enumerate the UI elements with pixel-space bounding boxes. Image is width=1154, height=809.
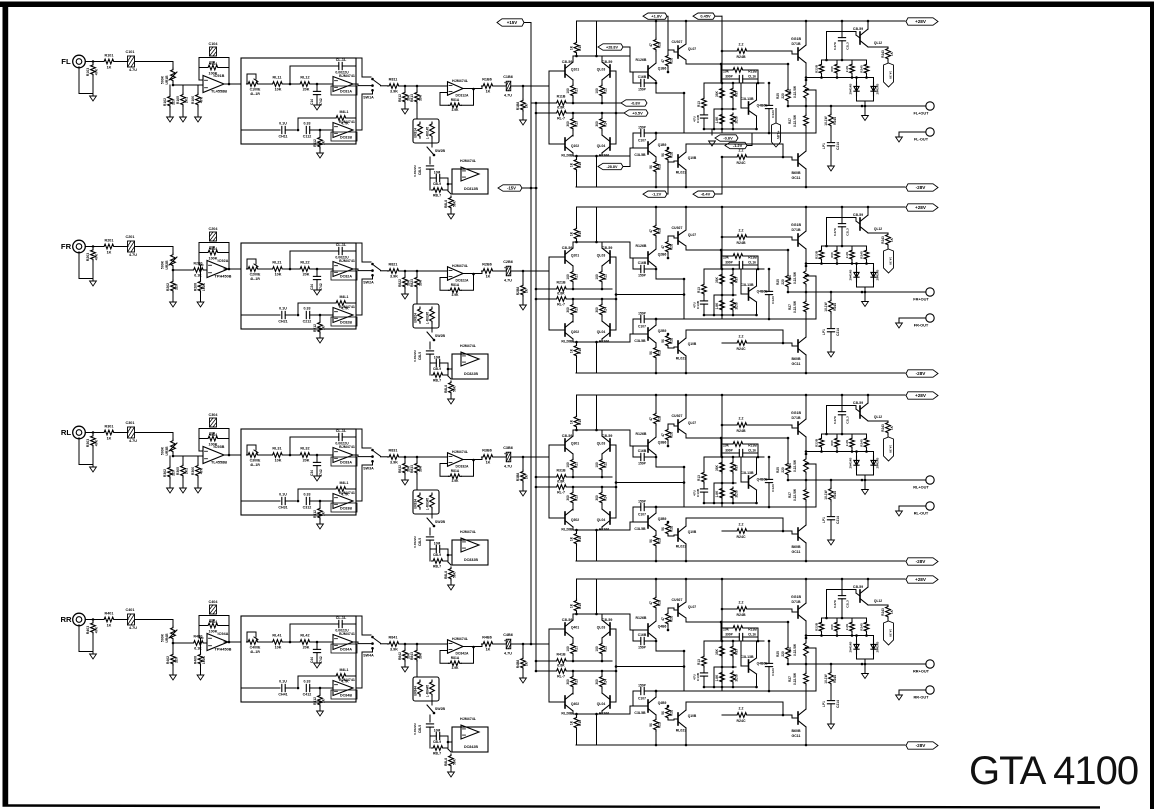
channel 1 voltage annotation flags: [598, 13, 781, 197]
svg-text:R243: R243: [881, 424, 885, 432]
svg-text:1K: 1K: [525, 103, 529, 108]
svg-text:L-R8245: L-R8245: [426, 312, 430, 325]
resistor R43C: [697, 641, 706, 673]
transistor Q212 C3L59: [853, 213, 882, 233]
svg-text:R23B: R23B: [815, 64, 819, 73]
svg-text:R24B: R24B: [737, 55, 746, 59]
svg-text:DC81B: DC81B: [340, 136, 352, 140]
svg-text:R2C: R2C: [670, 57, 674, 64]
resistor R445 2.2K: [845, 621, 854, 636]
trimmer UR4B 500K: [161, 626, 178, 643]
capacitor C8L1 0.0022U: [413, 164, 434, 178]
wire diff input channel 3: [549, 445, 565, 518]
svg-text:R8L8: R8L8: [444, 758, 448, 766]
capacitor C2B6 4.7U: [501, 260, 523, 283]
resistor R408 100K minus input: [194, 638, 207, 665]
resistor R245 2.2K: [845, 249, 854, 264]
resistor R212 1K to ground: [313, 314, 326, 338]
wire Q31B collector rail: [805, 394, 808, 419]
svg-text:IC94A: IC94A: [218, 632, 229, 636]
resistor R125 220/0.5W: [776, 63, 790, 108]
svg-text:150P: 150P: [638, 646, 647, 650]
switch SW3B: [427, 518, 446, 535]
svg-text:Q202: Q202: [571, 330, 579, 334]
svg-text:D71B: D71B: [792, 600, 801, 604]
resistor R343 1K: [868, 421, 894, 437]
capacitor C4B6 4.7U: [501, 633, 523, 656]
capacitor C223: [765, 268, 775, 321]
svg-text:DC812A: DC812A: [455, 94, 469, 98]
svg-text:C4B6: C4B6: [503, 633, 513, 637]
capacitor C36B 150P: [633, 446, 657, 466]
svg-text:R22: R22: [604, 88, 608, 94]
transistor Q312 C3L59: [853, 401, 882, 421]
transistor Q404 R1266: [597, 693, 610, 716]
svg-text:1K: 1K: [107, 624, 112, 628]
resistor R102 220: [163, 85, 176, 107]
capacitor C323: [765, 456, 775, 509]
svg-text:LP1: LP1: [822, 143, 826, 149]
transistor Q107 CU927: [672, 40, 697, 60]
svg-text:C112: C112: [303, 135, 311, 139]
resistor R41B 6.8K from bus: [535, 653, 612, 664]
svg-text:36K: 36K: [715, 464, 719, 471]
feedback resistor M4L3 4.7K: [297, 481, 356, 502]
svg-text:C3L5B: C3L5B: [634, 153, 646, 157]
resistor R225 220/0.5W: [776, 249, 790, 294]
transistor Q211 B688 driver: [792, 337, 807, 366]
wire VAS bottom input channel 4: [630, 706, 648, 714]
svg-text:HJM474L: HJM474L: [452, 79, 469, 83]
svg-text:C2L3: C2L3: [846, 416, 850, 424]
svg-text:47: 47: [649, 417, 653, 421]
svg-text:R25: R25: [776, 93, 780, 99]
resistor R345 2.2K: [845, 437, 854, 452]
filter box outline channel 2: [241, 243, 356, 329]
capacitor C401 4.7U: [126, 608, 138, 630]
trimmer UR825: [426, 307, 435, 332]
svg-text:4.7U: 4.7U: [129, 626, 137, 630]
svg-text:B60B: B60B: [792, 545, 801, 549]
op-amp IC91B TL4558: [203, 74, 227, 94]
svg-text:DC812B: DC812B: [464, 187, 478, 191]
op-amp DC84B BJM4741: [331, 678, 357, 699]
wire feedback to output channel 3: [783, 463, 816, 507]
svg-text:R305: R305: [176, 467, 180, 475]
wire diff collectors bottom channel 3: [573, 527, 630, 531]
transistor Q402 RL26B: [561, 693, 579, 716]
wire feedback rail op-amp DC81A: [289, 66, 356, 85]
svg-text:4L-1R: 4L-1R: [250, 463, 260, 467]
wire feedback channel 4: [655, 641, 783, 692]
svg-text:0.22-5W: 0.22-5W: [793, 301, 797, 313]
wire protection row top channel 4: [822, 617, 867, 621]
wire diff feedback channel 3: [610, 445, 616, 518]
resistor R34C 2.2 bottom: [722, 523, 798, 540]
wire Q312 collector rail: [867, 394, 870, 403]
svg-text:R813: R813: [410, 94, 414, 102]
svg-text:1.8K: 1.8K: [715, 116, 719, 123]
svg-text:1.8K: 1.8K: [715, 674, 719, 681]
resistor R104 100K feedback: [199, 62, 229, 76]
wire R301 to C301: [116, 432, 129, 434]
svg-text:20K: 20K: [303, 273, 310, 277]
wire output line channel 4: [788, 663, 926, 666]
wire diff collectors top channel 2: [573, 241, 630, 248]
svg-text:R16: R16: [578, 348, 582, 354]
op-amp DC822B HJM474L: [460, 344, 479, 376]
svg-text:R104: R104: [209, 62, 217, 66]
resistor R226 0.22/5W top: [788, 249, 808, 292]
resistor R116 1K diff bottom: [570, 156, 583, 187]
resistor R23C: [697, 269, 706, 301]
wire filter lower chain 2: [241, 314, 280, 316]
svg-text:R811: R811: [389, 78, 398, 82]
capacitor CL36 390P bias: [721, 449, 758, 457]
svg-text:R821: R821: [389, 263, 398, 267]
svg-text:C300E: C300E: [250, 459, 261, 463]
potentiometer C300E: [247, 445, 272, 467]
svg-text:C400E: C400E: [250, 646, 261, 650]
svg-text:-15V: -15V: [507, 185, 516, 190]
svg-text:RL32: RL32: [300, 447, 309, 451]
svg-text:RL-7: RL-7: [557, 491, 565, 495]
svg-text:R11B: R11B: [557, 95, 566, 99]
svg-text:R15: R15: [578, 231, 582, 237]
node filter 3 / capacitor C342: [310, 454, 323, 477]
transistor Q31B D718 driver: [791, 411, 806, 437]
resistor R3B8 1K to ground: [516, 457, 529, 491]
capacitor C204 22P feedback: [199, 227, 229, 250]
wire diff feedback channel 4: [610, 629, 616, 702]
svg-text:DC822A: DC822A: [455, 279, 469, 283]
wire bias box channel 2: [704, 249, 764, 271]
svg-text:TL4558B: TL4558B: [211, 461, 227, 465]
ground R102: [167, 108, 174, 122]
resistor R831 3.9K: [388, 449, 406, 465]
wire feedback rail op-amp DC82A: [289, 251, 356, 270]
capacitor C201 4.7U: [126, 235, 138, 257]
svg-text:4.7U: 4.7U: [129, 68, 137, 72]
svg-text:UR814: UR814: [414, 128, 418, 138]
switch SW2A feed: [356, 243, 374, 265]
wire Q212 collector rail: [867, 206, 870, 215]
svg-text:220: 220: [175, 657, 179, 663]
svg-text:10K: 10K: [275, 88, 282, 92]
power flag -15V bus: [498, 185, 537, 191]
svg-text:14.3V: 14.3V: [889, 629, 893, 638]
resistor R811 3.9K: [388, 78, 406, 94]
voltage flag 0.45V: [693, 13, 722, 19]
svg-text:R23: R23: [575, 121, 579, 127]
svg-text:R23B: R23B: [815, 250, 819, 259]
svg-text:C8L5: C8L5: [418, 352, 422, 360]
svg-text:C3L59: C3L59: [562, 60, 573, 64]
ground R212: [317, 338, 324, 343]
svg-text:R4B6: R4B6: [482, 636, 492, 640]
wire Q30B emitter drive: [686, 518, 784, 532]
capacitor C23B 47U: [693, 300, 708, 315]
svg-text:DC84A: DC84A: [340, 648, 352, 652]
resistor R2B6 1K: [482, 263, 502, 279]
resistor R106 47K: [191, 85, 204, 106]
svg-text:C8L9: C8L9: [433, 553, 441, 557]
resistor R322 100 emitter: [595, 454, 608, 477]
svg-text:R21: R21: [575, 274, 579, 280]
svg-text:C14: C14: [310, 99, 314, 105]
svg-text:C16B: C16B: [638, 449, 647, 453]
resistor R244 10/1W zobel: [824, 292, 837, 328]
svg-text:10K: 10K: [723, 256, 730, 260]
transistor Q101 C3L59: [562, 60, 580, 80]
wire diodes to output channel 1: [857, 96, 874, 107]
wire preamp 4 to power amp: [523, 643, 549, 645]
svg-text:RL023: RL023: [676, 729, 687, 733]
svg-text:C2L3: C2L3: [846, 42, 850, 50]
wire protection rail tap channel 4: [827, 578, 857, 618]
svg-text:220: 220: [172, 470, 176, 476]
svg-text:150P: 150P: [638, 274, 647, 278]
transistor Q411 B688 driver: [792, 709, 807, 738]
svg-text:UR824: UR824: [414, 313, 418, 323]
resistor R42D VAS bottom: [649, 715, 662, 746]
svg-text:2.2K: 2.2K: [845, 251, 849, 258]
svg-text:47U: 47U: [693, 115, 697, 121]
transistor Q202 RL26B: [561, 321, 579, 344]
svg-text:CL-1L: CL-1L: [336, 616, 347, 620]
capacitor C112 0.33: [303, 122, 333, 139]
svg-text:RL023: RL023: [676, 171, 687, 175]
resistor R243 1K: [868, 233, 894, 249]
wire protection row bottom channel 3: [805, 450, 874, 453]
resistor R222 100 emitter: [595, 266, 608, 289]
svg-text:R245: R245: [860, 251, 864, 259]
resistor R112 1K to ground: [313, 129, 326, 153]
svg-text:R27: R27: [788, 118, 792, 124]
svg-text:BJM4741: BJM4741: [339, 491, 355, 495]
svg-text:SW2B: SW2B: [435, 149, 446, 153]
svg-text:R812: R812: [398, 94, 402, 102]
svg-text:0.22-5W: 0.22-5W: [793, 460, 797, 472]
op-amp DC832A feedback loop R81A 3.9K: [440, 459, 475, 483]
node preamp output 4: [522, 643, 525, 646]
svg-text:C2L3: C2L3: [846, 228, 850, 236]
svg-text:+: +: [504, 639, 506, 643]
resistor R31B 6.8K from bus: [535, 469, 612, 480]
diode D33 2N4148: [849, 452, 860, 471]
wire VAS top input channel 4: [630, 614, 648, 630]
svg-text:C3L59: C3L59: [562, 434, 573, 438]
resistor R8L27 43B: [430, 363, 448, 383]
svg-text:56: 56: [649, 723, 653, 727]
node preamp input 4: [172, 642, 175, 645]
svg-text:-28.8V: -28.8V: [606, 165, 618, 169]
output terminal RL-OUT: [899, 502, 934, 516]
wire diff input channel 4: [549, 629, 565, 702]
switch SW4A lower contact: [356, 647, 374, 688]
resistor R336 36K: [731, 457, 739, 483]
svg-text:R412: R412: [313, 697, 317, 705]
wire VAS bottom input channel 2: [630, 334, 648, 342]
wire feedback loop IC94B: [199, 616, 230, 644]
voltage flag -6.4V bottom: [693, 156, 723, 198]
resistor R33C 600: [830, 437, 839, 452]
svg-text:4742: 4742: [319, 283, 323, 291]
resistor R812 10K: [398, 86, 411, 109]
svg-text:2.2: 2.2: [739, 229, 744, 233]
svg-text:R2B: R2B: [658, 41, 662, 48]
resistor R224 360 emitter: [595, 299, 608, 321]
wire bias mid channel 4: [714, 666, 736, 687]
svg-text:RL11: RL11: [273, 76, 282, 80]
svg-text:R24: R24: [604, 307, 608, 313]
capacitor C46B 150P: [633, 630, 657, 650]
svg-text:3.9K: 3.9K: [390, 648, 398, 652]
wire Q407 collector to rail: [685, 578, 688, 601]
resistor R24C 2.2 bottom: [722, 335, 798, 352]
resistor R337 1.8K: [715, 487, 724, 503]
feedback resistor M4L4 4.7K: [297, 668, 356, 689]
svg-text:R2D: R2D: [658, 349, 662, 356]
svg-text:3L55: 3L55: [735, 674, 739, 681]
svg-text:360: 360: [595, 679, 599, 685]
svg-text:6.8K: 6.8K: [557, 480, 565, 484]
svg-text:R101: R101: [105, 54, 114, 58]
flag channel name 4: [884, 621, 894, 645]
wire Q307 emitter drive: [686, 435, 788, 438]
svg-text:100: 100: [566, 88, 570, 94]
svg-text:LP1: LP1: [822, 517, 826, 523]
svg-text:2N414B: 2N414B: [849, 457, 853, 469]
svg-text:RL12: RL12: [300, 76, 309, 80]
svg-text:L-R8445: L-R8445: [426, 685, 430, 698]
vertical wire bias channel 4: [721, 578, 724, 691]
svg-text:R3B6: R3B6: [482, 449, 492, 453]
wire diff input channel 2: [549, 257, 565, 330]
svg-text:-0.8V: -0.8V: [631, 100, 641, 105]
svg-text:HJM474L: HJM474L: [460, 530, 477, 534]
wire Q20B collector to rail: [685, 356, 688, 374]
ground R8L28: [448, 399, 455, 404]
svg-text:47K: 47K: [95, 253, 99, 260]
resistor R144 10/1W zobel: [824, 106, 837, 142]
svg-text:R2D: R2D: [658, 721, 662, 728]
svg-text:QL03: QL03: [597, 442, 606, 446]
wire diff input channel 1: [549, 71, 565, 144]
switch SW4B: [427, 705, 446, 722]
svg-text:C8L9: C8L9: [433, 367, 441, 371]
resistor R325 220/0.5W: [776, 437, 790, 482]
svg-text:47U: 47U: [693, 489, 697, 495]
resistor R215 1K diff top: [570, 207, 583, 242]
svg-text:C200E: C200E: [250, 273, 261, 277]
svg-text:47: 47: [661, 245, 665, 249]
power flag -28V channel 2: [906, 370, 938, 377]
capacitor C304 22P feedback: [199, 413, 229, 436]
resistor R22C VAS top 2: [661, 236, 678, 259]
svg-text:1.8K: 1.8K: [715, 490, 719, 497]
svg-text:1K: 1K: [525, 288, 529, 293]
wire Q406 collector emitter: [755, 641, 758, 688]
svg-text:4.7U: 4.7U: [504, 465, 512, 469]
svg-text:UR2B: UR2B: [165, 260, 169, 270]
capacitor C33B 47U: [693, 488, 708, 503]
svg-text:0.1U: 0.1U: [279, 493, 287, 497]
wire preamp 3 to power amp: [523, 456, 549, 458]
op-amp DC822A feedback loop R81A 3.9K: [440, 273, 475, 297]
svg-text:C8L9: C8L9: [433, 740, 441, 744]
resistor R437 1.8K: [715, 671, 724, 687]
op-amp DC82A BJM4741: [331, 259, 357, 280]
wire filter lower chain 3: [241, 500, 280, 502]
svg-text:R24B: R24B: [737, 241, 746, 245]
switch SW4A: [363, 638, 388, 657]
svg-text:R245: R245: [860, 623, 864, 631]
svg-text:R24: R24: [604, 679, 608, 685]
svg-text:36K: 36K: [715, 90, 719, 97]
resistor R22D VAS bottom: [649, 343, 662, 374]
svg-text:HJM474L: HJM474L: [460, 344, 477, 348]
svg-text:2N414B: 2N414B: [876, 83, 880, 95]
svg-text:R24C: R24C: [737, 161, 746, 165]
svg-text:0.0022U: 0.0022U: [413, 722, 417, 734]
svg-text:R2E: R2E: [670, 338, 674, 344]
svg-text:10-1W: 10-1W: [824, 490, 828, 499]
svg-text:3.9K: 3.9K: [390, 275, 398, 279]
trimmer box UR8145: [413, 119, 439, 143]
svg-text:0.45V: 0.45V: [700, 14, 711, 19]
svg-text:DC82B: DC82B: [340, 321, 352, 325]
wire protection row top channel 3: [822, 433, 867, 437]
svg-text:220: 220: [175, 284, 179, 290]
svg-text:2.2K: 2.2K: [845, 623, 849, 630]
svg-text:C404: C404: [209, 600, 219, 604]
capacitor C312 0.33: [303, 493, 333, 510]
svg-text:C101: C101: [126, 50, 135, 54]
ground jack J2: [90, 281, 97, 286]
resistor R444 10/1W zobel: [824, 664, 837, 700]
ground C142: [314, 105, 321, 110]
resistor R346 2.2K: [860, 437, 869, 452]
svg-text:RL31: RL31: [272, 447, 281, 451]
svg-text:Q10B: Q10B: [688, 156, 697, 160]
resistor R435 36K: [715, 641, 724, 667]
svg-text:47: 47: [649, 601, 653, 605]
ground R208: [197, 293, 204, 307]
capacitor C101 4.7U: [126, 50, 138, 72]
svg-text:Q2B6: Q2B6: [658, 253, 667, 257]
op-amp DC81B BJM4741: [331, 120, 357, 141]
capacitor CH21 0.1U: [278, 307, 296, 324]
svg-text:SW1A: SW1A: [363, 96, 374, 100]
svg-text:RL26B: RL26B: [561, 340, 573, 344]
transistor Q307 CU927: [672, 414, 697, 434]
capacitor C307 150P: [633, 500, 657, 523]
svg-text:CL-1L: CL-1L: [336, 243, 347, 247]
wire jack RL output: [85, 431, 103, 434]
transistor Q303 C3L59: [597, 434, 613, 454]
svg-text:4742: 4742: [319, 656, 323, 664]
wire diff collectors top channel 1: [573, 55, 630, 62]
resistor R1B6 1K: [482, 78, 502, 94]
svg-text:R22: R22: [604, 462, 608, 468]
resistor RL17 6.8K from bus: [535, 106, 618, 121]
svg-text:56K: 56K: [453, 758, 457, 765]
svg-text:360: 360: [595, 495, 599, 501]
svg-text:R208: R208: [194, 283, 198, 291]
svg-text:R15: R15: [578, 419, 582, 425]
svg-text:R244: R244: [833, 303, 837, 311]
